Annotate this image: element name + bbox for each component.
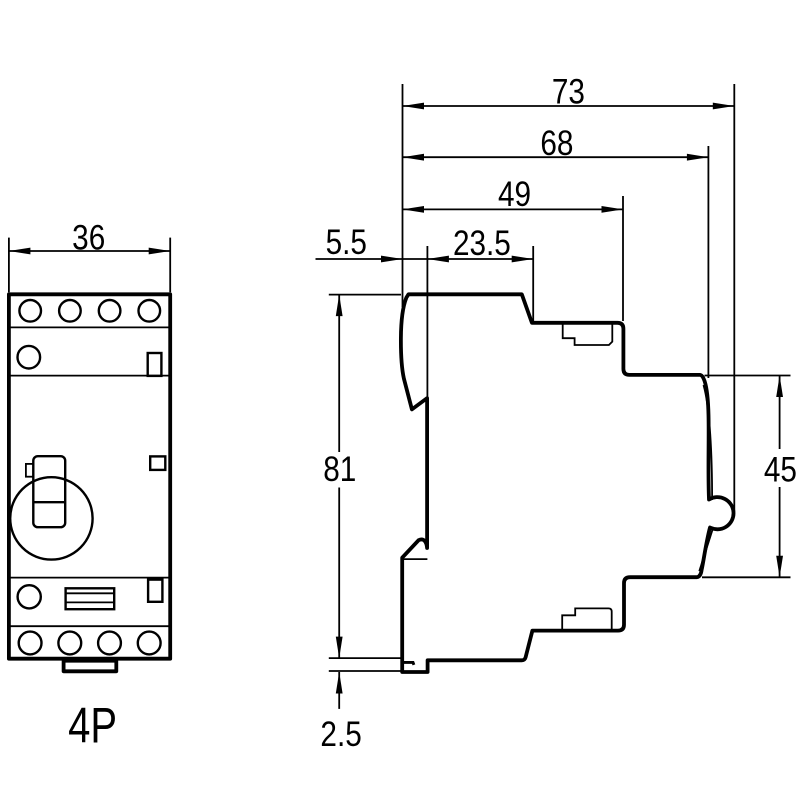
- svg-text:45: 45: [764, 450, 797, 489]
- svg-text:5.5: 5.5: [326, 223, 367, 262]
- svg-text:68: 68: [540, 124, 573, 163]
- svg-text:2.5: 2.5: [320, 715, 361, 754]
- svg-text:73: 73: [552, 72, 585, 111]
- svg-text:81: 81: [323, 450, 356, 489]
- svg-text:49: 49: [498, 175, 531, 214]
- svg-text:4P: 4P: [68, 697, 117, 753]
- svg-text:36: 36: [72, 218, 105, 257]
- svg-text:23.5: 23.5: [453, 224, 511, 263]
